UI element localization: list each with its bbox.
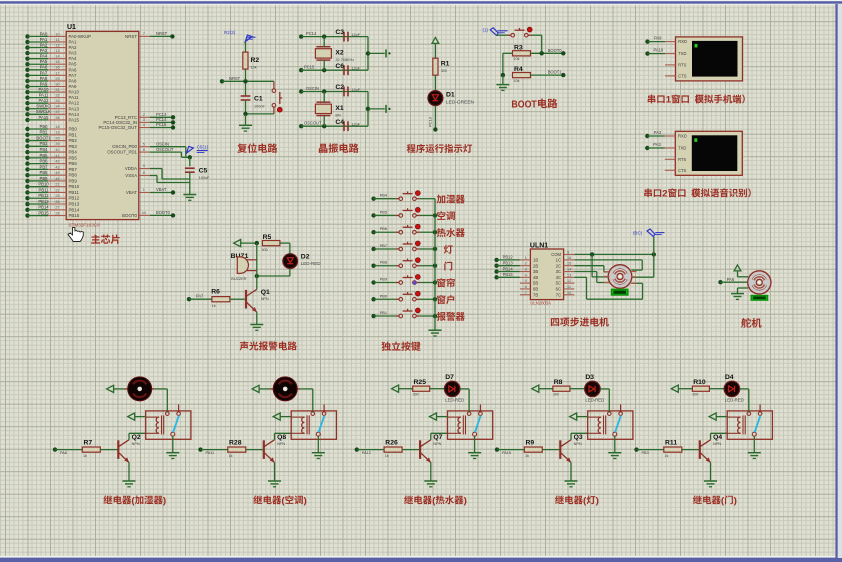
- svg-text:10k: 10k: [251, 66, 257, 70]
- svg-text:7C: 7C: [556, 292, 561, 297]
- svg-text:C5(1): C5(1): [197, 145, 209, 150]
- svg-text:R25: R25: [414, 379, 427, 386]
- svg-text:NPN: NPN: [277, 442, 285, 446]
- svg-text:14: 14: [567, 268, 571, 272]
- svg-text:D3: D3: [585, 374, 594, 381]
- svg-text:7: 7: [143, 32, 145, 36]
- svg-text:38: 38: [55, 116, 59, 120]
- svg-text:LED-RED: LED-RED: [725, 398, 744, 403]
- svg-text:41: 41: [55, 154, 59, 158]
- svg-text:4C: 4C: [556, 275, 561, 280]
- svg-text:40: 40: [55, 148, 59, 152]
- svg-text:12: 12: [55, 43, 59, 47]
- svg-text:COM: COM: [551, 252, 561, 257]
- svg-text:R6: R6: [211, 288, 220, 295]
- svg-text:PA0: PA0: [40, 31, 48, 36]
- svg-text:28: 28: [55, 211, 59, 215]
- svg-text:Q8: Q8: [277, 434, 286, 441]
- svg-text:PB15: PB15: [38, 210, 49, 215]
- svg-text:BOOT0: BOOT0: [156, 210, 171, 215]
- svg-text:15: 15: [567, 262, 571, 266]
- svg-text:300: 300: [413, 392, 419, 396]
- svg-text:PB9: PB9: [69, 178, 78, 183]
- svg-text:PA12: PA12: [362, 451, 371, 455]
- svg-text:PA6: PA6: [69, 67, 78, 72]
- svg-text:17: 17: [55, 71, 59, 75]
- svg-text:45: 45: [55, 171, 59, 175]
- svg-text:R11: R11: [665, 440, 677, 447]
- svg-text:3: 3: [525, 268, 527, 272]
- svg-text:6B: 6B: [533, 287, 538, 292]
- svg-text:33: 33: [55, 99, 59, 103]
- svg-text:PB15: PB15: [69, 213, 80, 218]
- svg-text:PA2: PA2: [40, 42, 48, 47]
- svg-text:OSCOUT_PD1: OSCOUT_PD1: [107, 150, 137, 155]
- svg-text:6: 6: [143, 148, 145, 152]
- svg-text:R5: R5: [263, 234, 272, 241]
- svg-text:PA1: PA1: [40, 37, 48, 42]
- svg-text:PA15: PA15: [39, 115, 50, 120]
- svg-text:LED-RED: LED-RED: [445, 398, 464, 403]
- svg-text:PA10: PA10: [69, 90, 80, 95]
- svg-text:5: 5: [143, 142, 145, 146]
- svg-text:PC14: PC14: [306, 31, 317, 36]
- svg-text:PA8: PA8: [69, 78, 78, 83]
- svg-text:C1: C1: [254, 96, 263, 103]
- svg-text:10: 10: [55, 32, 59, 36]
- svg-text:LED-RED: LED-RED: [301, 261, 322, 266]
- svg-text:R4: R4: [514, 66, 523, 73]
- svg-text:OSCOUT: OSCOUT: [304, 121, 322, 126]
- svg-text:PB1: PB1: [40, 130, 49, 135]
- svg-text:7B: 7B: [533, 292, 538, 297]
- svg-text:VBAT: VBAT: [156, 187, 167, 192]
- svg-text:PA11: PA11: [206, 451, 215, 455]
- svg-text:PA13: PA13: [69, 106, 80, 111]
- svg-text:PB12: PB12: [503, 255, 514, 260]
- svg-text:15: 15: [55, 60, 59, 64]
- svg-text:37: 37: [55, 110, 59, 114]
- svg-text:1: 1: [525, 256, 527, 260]
- svg-text:LED-GREEN: LED-GREEN: [446, 100, 475, 106]
- svg-text:10k: 10k: [513, 79, 519, 83]
- svg-text:1: 1: [143, 188, 145, 192]
- svg-text:PB6: PB6: [380, 226, 387, 231]
- svg-text:PB12: PB12: [38, 193, 49, 198]
- svg-text:PB7: PB7: [69, 167, 78, 172]
- svg-text:12pF: 12pF: [351, 33, 360, 37]
- svg-text:PB8: PB8: [380, 260, 387, 265]
- svg-text:PA15: PA15: [502, 451, 511, 455]
- svg-text:2: 2: [143, 113, 145, 117]
- svg-text:32: 32: [55, 94, 59, 98]
- svg-text:C3: C3: [335, 29, 344, 36]
- svg-text:43: 43: [55, 165, 59, 169]
- svg-text:OSCIN: OSCIN: [306, 86, 319, 91]
- svg-text:PA7: PA7: [196, 294, 204, 299]
- svg-text:ULN1: ULN1: [530, 242, 548, 249]
- svg-text:): ): [304, 494, 307, 505]
- svg-text:PA14: PA14: [69, 112, 80, 117]
- svg-text:34: 34: [55, 105, 59, 109]
- svg-text:C6: C6: [335, 63, 344, 70]
- svg-text:PB10: PB10: [38, 182, 49, 187]
- svg-text:PB0: PB0: [40, 124, 49, 129]
- svg-text:PA15: PA15: [69, 117, 80, 122]
- svg-text:R9: R9: [526, 440, 535, 447]
- svg-text:PA11: PA11: [69, 95, 80, 100]
- svg-text:BOOT0: BOOT0: [122, 213, 137, 218]
- svg-text:STM32F103C8: STM32F103C8: [69, 223, 101, 228]
- svg-text:R8: R8: [554, 379, 563, 386]
- svg-text:5: 5: [525, 279, 527, 283]
- svg-text:PB3: PB3: [69, 144, 78, 149]
- svg-text:31: 31: [55, 88, 59, 92]
- svg-text:PA9: PA9: [69, 84, 78, 89]
- svg-text:OSCIN: OSCIN: [156, 142, 169, 147]
- svg-text:2C: 2C: [556, 263, 561, 268]
- svg-text:C5: C5: [199, 168, 208, 175]
- svg-text:8: 8: [143, 171, 145, 175]
- svg-text:R28: R28: [229, 440, 242, 447]
- svg-text:PB11: PB11: [69, 190, 80, 195]
- svg-text:PA10: PA10: [39, 87, 50, 92]
- svg-text:1k: 1k: [229, 454, 233, 458]
- svg-text:OSCIN_PD0: OSCIN_PD0: [112, 144, 137, 149]
- svg-text:PA3: PA3: [653, 142, 661, 147]
- svg-text:12: 12: [567, 279, 571, 283]
- svg-text:RTS: RTS: [678, 62, 686, 67]
- svg-text:32.768KHz: 32.768KHz: [335, 58, 354, 62]
- svg-text:D4: D4: [725, 374, 734, 381]
- svg-text:19: 19: [55, 131, 59, 135]
- svg-text:(1): (1): [483, 28, 489, 33]
- svg-text:PA5: PA5: [40, 59, 48, 64]
- svg-text:46: 46: [55, 177, 59, 181]
- svg-text:44: 44: [142, 211, 146, 215]
- svg-text:NRST: NRST: [156, 31, 168, 36]
- svg-text:PC15: PC15: [156, 122, 167, 127]
- svg-text:2: 2: [662, 187, 668, 198]
- svg-text:9: 9: [143, 164, 145, 168]
- svg-text:1k: 1k: [212, 304, 216, 308]
- svg-text:20: 20: [55, 136, 59, 140]
- svg-text:1: 1: [666, 94, 672, 105]
- svg-text:26: 26: [55, 200, 59, 204]
- svg-text:PB1: PB1: [380, 310, 387, 315]
- svg-text:NPN: NPN: [713, 442, 721, 446]
- svg-text:2: 2: [525, 262, 527, 266]
- svg-text:NPN: NPN: [433, 442, 441, 446]
- svg-text:R7: R7: [84, 440, 93, 447]
- svg-text:NRST: NRST: [229, 76, 241, 81]
- svg-text:PC13: PC13: [428, 116, 433, 127]
- svg-text:1k: 1k: [83, 454, 87, 458]
- svg-text:R2(2): R2(2): [224, 30, 236, 35]
- svg-text:100nF: 100nF: [254, 104, 265, 108]
- svg-text:R26: R26: [385, 440, 398, 447]
- svg-text:PC15: PC15: [304, 65, 315, 70]
- svg-text:PA12: PA12: [39, 98, 50, 103]
- svg-text:4B: 4B: [533, 275, 538, 280]
- svg-text:3C: 3C: [556, 269, 561, 274]
- svg-text:5B: 5B: [533, 281, 538, 286]
- svg-text:NPN: NPN: [132, 442, 140, 446]
- svg-text:PB11: PB11: [39, 187, 50, 192]
- svg-text:PA6: PA6: [727, 277, 735, 282]
- svg-text:BOOT: BOOT: [511, 99, 537, 110]
- svg-text:300: 300: [553, 392, 559, 396]
- svg-text:): ): [734, 494, 737, 505]
- svg-text:RXD: RXD: [678, 39, 687, 44]
- svg-text:13: 13: [55, 49, 59, 53]
- svg-text:PA11: PA11: [39, 93, 49, 98]
- svg-text:D7: D7: [445, 374, 454, 381]
- svg-text:3B: 3B: [533, 269, 538, 274]
- svg-text:C2: C2: [335, 84, 344, 91]
- svg-text:): ): [596, 494, 599, 505]
- svg-text:16: 16: [55, 66, 59, 70]
- svg-text:PC15-OSC32_OUT: PC15-OSC32_OUT: [98, 125, 137, 130]
- svg-text:PB4: PB4: [69, 150, 78, 155]
- svg-text:BOOT0: BOOT0: [548, 48, 563, 53]
- svg-text:PB13: PB13: [38, 199, 49, 204]
- svg-text:PB12: PB12: [69, 196, 80, 201]
- svg-text:(BC): (BC): [633, 231, 643, 236]
- svg-text:300: 300: [441, 69, 447, 73]
- svg-text:PB13: PB13: [69, 202, 80, 207]
- svg-text:PB6: PB6: [40, 159, 49, 164]
- svg-text:5C: 5C: [556, 281, 561, 286]
- svg-text:PB13: PB13: [503, 261, 514, 266]
- svg-text:PA4: PA4: [69, 56, 78, 61]
- svg-text:PB14: PB14: [38, 205, 49, 210]
- svg-text:7: 7: [525, 291, 527, 295]
- svg-text:PA7: PA7: [40, 70, 48, 75]
- svg-text:11: 11: [567, 285, 571, 289]
- svg-text:OSCOUT: OSCOUT: [156, 147, 174, 152]
- svg-text:NRST: NRST: [125, 34, 137, 39]
- svg-text:R3: R3: [514, 44, 523, 51]
- svg-text:PA5: PA5: [69, 62, 78, 67]
- svg-text:3: 3: [143, 118, 145, 122]
- svg-text:TXD: TXD: [678, 146, 686, 151]
- svg-text:PB14: PB14: [69, 207, 80, 212]
- svg-text:LED-RED: LED-RED: [585, 398, 604, 403]
- svg-text:RXD: RXD: [678, 134, 687, 139]
- svg-text:PB6: PB6: [69, 161, 78, 166]
- svg-text:PB5: PB5: [380, 209, 387, 214]
- svg-text:R1: R1: [441, 61, 450, 68]
- svg-text:PB5: PB5: [69, 155, 78, 160]
- svg-text:CTS: CTS: [678, 168, 686, 173]
- svg-text:PA1: PA1: [69, 39, 78, 44]
- svg-text:PB14: PB14: [503, 266, 514, 271]
- svg-text:22: 22: [55, 188, 59, 192]
- svg-text:PB1: PB1: [69, 132, 78, 137]
- svg-text:SWCLK: SWCLK: [36, 109, 51, 114]
- svg-text:BUZZER: BUZZER: [231, 277, 246, 281]
- svg-text:Q2: Q2: [132, 434, 141, 441]
- svg-text:PB0: PB0: [380, 293, 388, 298]
- svg-text:10k: 10k: [513, 57, 519, 61]
- svg-text:PA3: PA3: [40, 48, 48, 53]
- svg-text:30: 30: [55, 82, 59, 86]
- svg-text:PA2: PA2: [654, 130, 662, 135]
- svg-text:VSSA: VSSA: [125, 173, 137, 178]
- svg-text:PA9: PA9: [654, 36, 662, 41]
- svg-text:1k: 1k: [525, 454, 529, 458]
- svg-text:VBAT: VBAT: [126, 190, 137, 195]
- svg-text:PA7: PA7: [69, 73, 78, 78]
- svg-text:21: 21: [55, 183, 59, 187]
- svg-text:Q4: Q4: [713, 434, 722, 441]
- svg-text:9: 9: [567, 250, 569, 254]
- svg-text:Q1: Q1: [261, 289, 270, 296]
- svg-text:14: 14: [55, 55, 59, 59]
- svg-text:X1: X1: [335, 105, 344, 112]
- svg-text:): ): [163, 494, 166, 505]
- svg-text:4: 4: [525, 273, 527, 277]
- svg-text:PB0: PB0: [69, 127, 78, 132]
- svg-text:39: 39: [55, 142, 59, 146]
- svg-text:12pF: 12pF: [351, 67, 360, 71]
- svg-text:D1: D1: [446, 92, 455, 99]
- svg-text:PB5: PB5: [40, 153, 49, 158]
- svg-text:PA9: PA9: [40, 81, 48, 86]
- svg-text:PB9: PB9: [380, 277, 387, 282]
- svg-text:100nF: 100nF: [199, 176, 210, 180]
- svg-text:C4: C4: [335, 119, 344, 126]
- svg-text:PB4: PB4: [380, 193, 388, 198]
- svg-text:X2: X2: [335, 49, 344, 56]
- svg-text:R10: R10: [693, 379, 706, 386]
- svg-text:R2: R2: [251, 57, 260, 64]
- svg-text:2B: 2B: [533, 263, 538, 268]
- svg-text:300: 300: [261, 248, 267, 252]
- svg-text:Q7: Q7: [433, 434, 442, 441]
- svg-text:TXD: TXD: [678, 51, 686, 56]
- svg-text:VDDA: VDDA: [125, 166, 137, 171]
- svg-text:BOOT1: BOOT1: [36, 135, 51, 140]
- svg-text:PA6: PA6: [40, 65, 48, 70]
- svg-text:D2: D2: [301, 253, 310, 260]
- svg-text:PB4: PB4: [40, 147, 49, 152]
- svg-text:1C: 1C: [556, 258, 561, 263]
- svg-text:NPN: NPN: [574, 442, 582, 446]
- svg-text:PA0-WKUP: PA0-WKUP: [69, 34, 92, 39]
- svg-text:PB9: PB9: [40, 176, 49, 181]
- svg-text:SWDIO: SWDIO: [36, 104, 51, 109]
- svg-text:1k: 1k: [665, 454, 669, 458]
- svg-text:NPN: NPN: [261, 297, 269, 301]
- svg-text:CTS: CTS: [678, 73, 686, 78]
- svg-text:PB7: PB7: [380, 243, 387, 248]
- svg-text:Q3: Q3: [574, 434, 583, 441]
- svg-text:PA2: PA2: [69, 45, 78, 50]
- svg-text:PA8: PA8: [40, 76, 48, 81]
- svg-text:PB8: PB8: [40, 170, 49, 175]
- svg-text:12pF: 12pF: [351, 88, 360, 92]
- svg-text:29: 29: [55, 77, 59, 81]
- svg-text:16: 16: [567, 256, 571, 260]
- svg-text:27: 27: [55, 206, 59, 210]
- svg-text:25: 25: [55, 194, 59, 198]
- svg-text:PA3: PA3: [69, 51, 78, 56]
- svg-text:PB8: PB8: [69, 173, 78, 178]
- svg-text:12pF: 12pF: [351, 123, 360, 127]
- svg-text:U1: U1: [67, 24, 76, 31]
- svg-text:PB2: PB2: [69, 138, 78, 143]
- svg-text:1B: 1B: [533, 258, 538, 263]
- svg-text:ULN2003A: ULN2003A: [530, 300, 551, 305]
- svg-text:PA12: PA12: [69, 101, 80, 106]
- svg-text:PB3: PB3: [40, 141, 49, 146]
- svg-text:10: 10: [567, 291, 571, 295]
- svg-text:8M: 8M: [335, 114, 340, 118]
- svg-text:PB10: PB10: [69, 184, 80, 189]
- svg-text:PB7: PB7: [40, 164, 49, 169]
- svg-text:11: 11: [56, 38, 60, 42]
- svg-text:13: 13: [567, 273, 571, 277]
- svg-text:PA10: PA10: [654, 48, 664, 53]
- svg-text:BOOT1: BOOT1: [548, 70, 563, 75]
- svg-text:4: 4: [143, 123, 145, 127]
- svg-text:PA8: PA8: [60, 451, 67, 455]
- svg-text:PB3: PB3: [642, 451, 649, 455]
- svg-text:6C: 6C: [556, 287, 561, 292]
- svg-text:1k: 1k: [385, 454, 389, 458]
- svg-text:): ): [464, 494, 467, 505]
- svg-text:42: 42: [55, 160, 59, 164]
- svg-text:18: 18: [55, 125, 59, 129]
- svg-text:PA4: PA4: [40, 54, 48, 59]
- svg-text:PB15: PB15: [503, 272, 514, 277]
- svg-text:6: 6: [525, 285, 527, 289]
- svg-text:RTS: RTS: [678, 157, 686, 162]
- svg-text:300: 300: [692, 392, 698, 396]
